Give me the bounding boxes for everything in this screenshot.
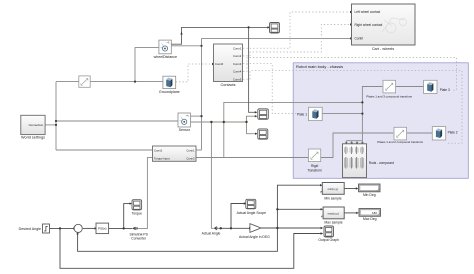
block Torque scope [132, 200, 142, 216]
svg-text:180: 180 [372, 211, 377, 215]
block Cart wheels [352, 4, 416, 51]
block Step [43, 224, 50, 233]
wire actual angle to gain [218, 227, 249, 229]
block Max Deg display [359, 209, 381, 222]
block Sensor [178, 113, 191, 132]
wire vertical x56 [55, 82, 57, 150]
svg-text:Transform: Transform [307, 169, 322, 173]
block transform A [79, 76, 90, 87]
wire scopes junction branches [247, 116, 256, 134]
block wheelDistance [154, 40, 177, 59]
block Plate 2 [432, 127, 457, 140]
svg-text:Min Deg: Min Deg [363, 193, 376, 197]
wire main frame vertical x362.4 [362, 87, 382, 141]
wire Sensor upper right [191, 115, 202, 117]
svg-text:Actual Angle Scope: Actual Angle Scope [237, 211, 267, 215]
block Min sample [321, 183, 344, 201]
wire to torque scope [124, 204, 130, 229]
block Plate 3 [424, 80, 450, 93]
wire Conn3 to Rigid Transform [196, 157, 309, 159]
svg-text:Plate 1: Plate 1 [297, 112, 307, 116]
arrow mid artifact [180, 32, 182, 35]
wire cart control net vertical [201, 38, 203, 150]
arrows rods ports [345, 142, 364, 145]
wire converter up to Torque Input [139, 158, 153, 229]
wire wheelDistance lower right [171, 45, 201, 47]
wire desired angle to output graph [60, 228, 321, 268]
svg-text:Max sample: Max sample [324, 221, 342, 225]
block Output Graph scope [318, 226, 339, 242]
wire actual angle vertical x211 [211, 122, 213, 228]
area Robot main body - chassis [293, 63, 468, 179]
block PID [96, 223, 109, 234]
block World settings [21, 115, 45, 139]
svg-text:Plate 3: Plate 3 [440, 88, 450, 92]
svg-text:Plate 2: Plate 2 [448, 131, 458, 135]
svg-text:Conn3: Conn3 [186, 156, 195, 160]
signal arrowheads [73, 11, 359, 235]
svg-text:Converter: Converter [131, 237, 147, 241]
block Sum [74, 224, 82, 232]
svg-text:Rods - compound: Rods - compound [369, 161, 394, 165]
wire transform2 to Plate2 [407, 132, 433, 134]
wire y150 to Torque Input Conn2 [56, 149, 153, 151]
svg-text:Actual Angle in DEG: Actual Angle in DEG [239, 235, 270, 239]
wire Rigid Transform up to transform2 [321, 133, 394, 158]
svg-text:Conn5: Conn5 [233, 77, 242, 81]
wire sum to PID [83, 227, 95, 229]
svg-text:Conn3: Conn3 [233, 62, 242, 66]
block Rods compound [343, 144, 395, 178]
svg-text:Min sample: Min sample [324, 196, 341, 200]
block Min Deg display [359, 184, 381, 197]
dashed groundplane to contacts [176, 64, 212, 82]
svg-text:Conn1: Conn1 [233, 46, 242, 50]
wire to actual angle scope [231, 204, 244, 229]
svg-text:Torque: Torque [132, 212, 142, 216]
wire frame net x223.8 [224, 102, 363, 157]
wire gain output [261, 227, 321, 229]
svg-text:Plates 1 and 3 compound transf: Plates 1 and 3 compound transform [366, 94, 412, 98]
dashed conn5 to plate2 rail [243, 71, 462, 144]
wire PID to converter [109, 227, 133, 229]
wire wheelDistance to scope [171, 27, 267, 44]
svg-text:Robot main body - chassis: Robot main body - chassis [296, 64, 343, 69]
svg-text:Left wheel contact: Left wheel contact [355, 10, 381, 14]
wire feedback [78, 228, 278, 251]
svg-text:max(u,y): max(u,y) [328, 211, 339, 215]
block scope Y2 [258, 129, 268, 139]
svg-text:Conn2: Conn2 [154, 149, 163, 153]
block transform 1-2 [377, 127, 423, 144]
svg-text:Conn1: Conn1 [186, 149, 195, 153]
svg-text:Rigid: Rigid [311, 164, 318, 168]
block Actual Angle Scope [237, 199, 267, 215]
svg-text:min(u,y): min(u,y) [328, 187, 338, 191]
wire step output [50, 227, 74, 229]
svg-text:Conn4: Conn4 [233, 70, 242, 74]
block Max sample [322, 207, 345, 225]
block PS-Simulink Converter (Actual Angle) [202, 226, 221, 235]
wire y121 to Sensor left [56, 120, 178, 122]
dashed conn4 to plate3 rail [243, 58, 457, 91]
wire Sensor lower right [191, 121, 247, 123]
wire transform1 to Plate3 [396, 86, 424, 88]
wire world-settings stub [45, 124, 56, 126]
wire max to display [344, 212, 356, 214]
dashed conn2 to cart right wheel [243, 25, 349, 56]
svg-text:Output Graph: Output Graph [318, 238, 339, 242]
wire y81.6 to Groundplane [56, 81, 163, 83]
block Torque Input subsystem [153, 146, 197, 161]
wire to wheelDistance left [135, 48, 159, 82]
svg-text:Groundplane: Groundplane [159, 90, 180, 94]
block Plate 1 [297, 107, 322, 120]
block Groundplane [159, 76, 180, 94]
block transform 1-3 [366, 80, 412, 98]
wire scope feed vertical x248.6 [249, 27, 255, 112]
block Contacts [214, 44, 243, 87]
svg-text:Plates 1 and 2 compound transf: Plates 1 and 2 compound transform [377, 140, 423, 144]
svg-text:Max Deg: Max Deg [363, 217, 377, 221]
svg-text:Cart - wheels: Cart - wheels [372, 47, 394, 51]
svg-text:PID(s): PID(s) [98, 227, 107, 231]
svg-text:Right wheel contact: Right wheel contact [355, 23, 383, 27]
wire min to display [344, 188, 356, 190]
wire Plate1 right [322, 113, 362, 115]
svg-text:Desired Angle: Desired Angle [19, 227, 41, 231]
svg-text:Conn6: Conn6 [215, 62, 224, 66]
block scope Y1 [258, 109, 269, 120]
svg-text:Contrl: Contrl [355, 37, 364, 41]
svg-text:Sensor: Sensor [179, 128, 191, 132]
block Rigid Transform [307, 149, 322, 173]
wire rods bus [346, 141, 362, 143]
block Simulink-PS Converter [129, 227, 148, 241]
wire up to min max [277, 185, 321, 228]
svg-text:Connection: Connection [29, 123, 44, 127]
svg-text:wheelDistance: wheelDistance [154, 55, 177, 59]
wire Torque Input Conn1 stub [196, 149, 202, 151]
svg-text:World settings: World settings [21, 136, 45, 140]
block scope X1 [270, 23, 280, 34]
dashed conn1 to cart left wheel [243, 12, 349, 48]
block Gain Actual Angle in DEG [239, 224, 270, 240]
wire y38.4 to Cart Contrl [202, 37, 351, 39]
svg-text:Actual Angle: Actual Angle [202, 231, 221, 235]
dashed conn3 to plate1 [243, 64, 296, 114]
svg-text:Conn2: Conn2 [233, 54, 242, 58]
svg-text:Torque Input: Torque Input [154, 156, 170, 160]
svg-text:Contacts: Contacts [221, 83, 236, 87]
